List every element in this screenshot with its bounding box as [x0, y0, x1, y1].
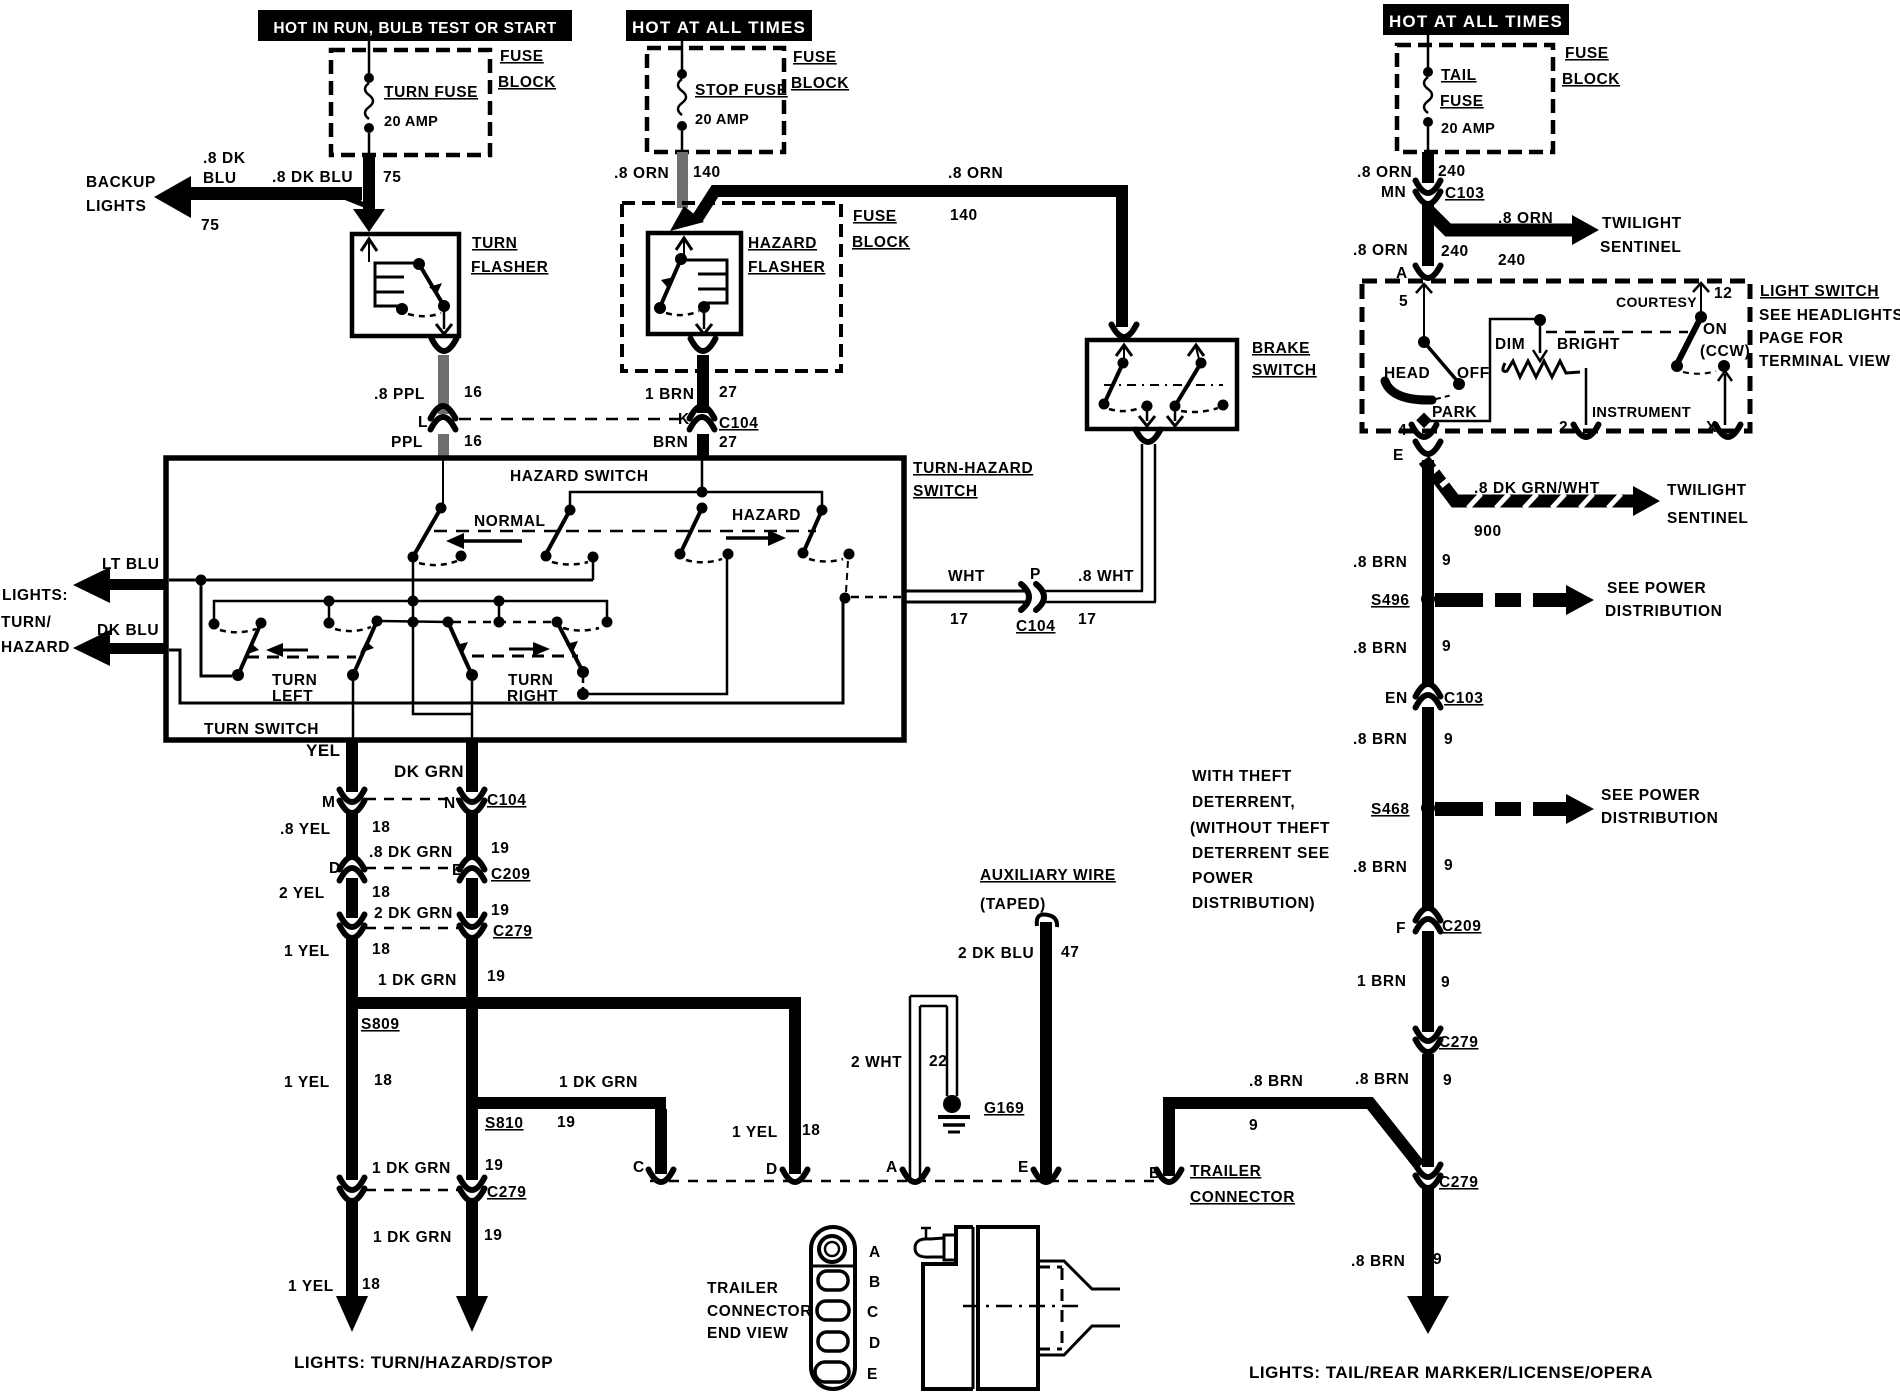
- wire .8 PPL 16: [438, 355, 449, 414]
- auxiliary wire 2 DK BLU 47: [1034, 914, 1059, 1182]
- wire LT BLU internal bus: [169, 560, 593, 586]
- hazard flasher dashed box: [622, 203, 841, 371]
- svg-text:S810: S810: [485, 1115, 524, 1132]
- svg-text:EN: EN: [1385, 690, 1408, 707]
- svg-text:12: 12: [1714, 285, 1732, 302]
- connector D C209: [329, 857, 365, 881]
- svg-text:.8 ORN: .8 ORN: [948, 165, 1003, 182]
- wire .8 ORN 140 (to brake switch): [697, 191, 1122, 327]
- label FUSE BLOCK 3: [852, 208, 910, 251]
- svg-text:9: 9: [1444, 857, 1453, 874]
- svg-text:TWILIGHT: TWILIGHT: [1602, 215, 1682, 232]
- svg-text:LIGHTS: TURN/HAZARD/STOP: LIGHTS: TURN/HAZARD/STOP: [294, 1353, 553, 1372]
- svg-text:TAIL: TAIL: [1441, 67, 1477, 84]
- svg-text:TURN: TURN: [472, 235, 517, 252]
- svg-text:1 BRN: 1 BRN: [1357, 973, 1407, 990]
- label SEE POWER DISTRIBUTION 1: [1605, 580, 1722, 620]
- svg-text:BACKUP: BACKUP: [86, 174, 156, 191]
- light switch courtesy ON CCW contacts: [1616, 283, 1750, 436]
- svg-text:19: 19: [557, 1114, 575, 1131]
- svg-text:.8 DK GRN/WHT: .8 DK GRN/WHT: [1474, 480, 1600, 497]
- arrow normal (left): [446, 533, 522, 549]
- svg-text:TURN FUSE: TURN FUSE: [384, 84, 478, 101]
- svg-text:D: D: [329, 860, 341, 877]
- labels AUXILIARY WIRE (TAPED) 2 DK BLU 47: [958, 867, 1116, 962]
- svg-text:.8 BRN: .8 BRN: [1249, 1073, 1303, 1090]
- labels YEL DK GRN: [306, 741, 464, 781]
- wire .8 DK GRN 19: [466, 812, 478, 858]
- dashed turn-right linkage + arrow: [472, 642, 578, 656]
- svg-text:1 YEL: 1 YEL: [288, 1278, 334, 1295]
- svg-text:240: 240: [1498, 252, 1526, 269]
- banner HOT AT ALL TIMES (middle): [626, 10, 812, 41]
- light switch exit chevrons 4 2 X: [1412, 425, 1741, 438]
- svg-text:BLU: BLU: [203, 170, 237, 187]
- svg-text:.8 YEL: .8 YEL: [280, 821, 331, 838]
- svg-text:LT BLU: LT BLU: [102, 556, 160, 573]
- labels 1 YEL 18 (S809 branch): [732, 1122, 820, 1178]
- svg-text:HAZARD: HAZARD: [732, 507, 801, 524]
- connector P C104 (horizontal): [1021, 584, 1044, 610]
- svg-text:B: B: [869, 1274, 881, 1291]
- svg-text:LIGHTS:: LIGHTS:: [2, 587, 68, 604]
- trailer connector dashed bus: [650, 1180, 1160, 1183]
- wire .8 BRN 9 main vertical (E to S496): [1422, 460, 1434, 685]
- svg-text:D: D: [869, 1335, 881, 1352]
- svg-text:1 DK GRN: 1 DK GRN: [559, 1074, 638, 1091]
- svg-text:.8 BRN: .8 BRN: [1351, 1253, 1405, 1270]
- hazard switch contact 2: [541, 510, 599, 565]
- svg-text:9: 9: [1443, 1072, 1452, 1089]
- svg-text:FLASHER: FLASHER: [471, 259, 548, 276]
- svg-text:TRAILER: TRAILER: [1190, 1163, 1261, 1180]
- labels 1 DK GRN (S810): [559, 1074, 645, 1176]
- svg-text:TURN: TURN: [508, 672, 553, 689]
- svg-text:19: 19: [484, 1227, 502, 1244]
- label TRAILER CONNECTOR END VIEW: [707, 1280, 812, 1342]
- svg-text:C: C: [633, 1159, 645, 1176]
- svg-text:17: 17: [950, 611, 968, 628]
- wire BRN 27: [697, 434, 709, 460]
- svg-text:HAZARD SWITCH: HAZARD SWITCH: [510, 468, 649, 485]
- svg-text:FUSE: FUSE: [1565, 45, 1609, 62]
- wire 1 BRN 27: [697, 355, 709, 413]
- label TURN-HAZARD SWITCH: [913, 460, 1033, 500]
- svg-text:.8 DK GRN: .8 DK GRN: [369, 844, 453, 861]
- svg-text:SEE POWER: SEE POWER: [1607, 580, 1706, 597]
- svg-text:LIGHT SWITCH: LIGHT SWITCH: [1760, 283, 1879, 300]
- wire BRN entry into hazard switch: [697, 460, 708, 498]
- svg-text:FUSE: FUSE: [853, 208, 897, 225]
- svg-text:END VIEW: END VIEW: [707, 1325, 788, 1342]
- svg-text:.8 DK BLU: .8 DK BLU: [272, 169, 353, 186]
- svg-text:SWITCH: SWITCH: [1252, 362, 1317, 379]
- labels .8 DK GRN/WHT 900 TWILIGHT SENTINEL: [1474, 480, 1748, 540]
- svg-text:FUSE: FUSE: [793, 49, 837, 66]
- arrow LT BLU output: [73, 567, 168, 603]
- svg-text:F: F: [1396, 920, 1406, 937]
- turn switch contact left (TURN LEFT): [209, 618, 267, 682]
- turn-right arm: [557, 622, 589, 700]
- arrow to TWILIGHT SENTINEL (orange): [1428, 210, 1599, 245]
- svg-text:N: N: [444, 795, 456, 812]
- connector E C209: [452, 857, 530, 883]
- svg-text:5: 5: [1399, 293, 1408, 310]
- svg-text:D: D: [766, 1161, 778, 1178]
- svg-text:M: M: [322, 794, 336, 811]
- svg-text:900: 900: [1474, 523, 1502, 540]
- svg-text:L: L: [418, 414, 428, 431]
- dashed line C104 L-K: [459, 418, 684, 421]
- label TRAILER CONNECTOR: [1190, 1163, 1295, 1206]
- svg-text:27: 27: [719, 434, 737, 451]
- wire 1 YEL 18 (below S809): [346, 1009, 358, 1180]
- connector N C104: [444, 790, 526, 814]
- hazard switch contact 3: [675, 503, 734, 563]
- labels LT BLU / LIGHTS: TURN/ HAZARD: [102, 556, 160, 573]
- svg-text:C103: C103: [1444, 690, 1483, 707]
- svg-text:9: 9: [1249, 1117, 1258, 1134]
- svg-text:FLASHER: FLASHER: [748, 259, 825, 276]
- svg-text:18: 18: [362, 1276, 380, 1293]
- labels A B C D E (end view pins): [867, 1244, 881, 1383]
- light switch rheostat DIM BRIGHT INSTRUMENT: [1424, 314, 1691, 436]
- label FUSE BLOCK 1: [498, 48, 556, 91]
- svg-text:9: 9: [1433, 1251, 1442, 1268]
- svg-text:18: 18: [374, 1072, 392, 1089]
- wire .8 BRN 9 branch to trailer B: [1157, 1103, 1421, 1182]
- wire 1 DK GRN 19: [466, 938, 478, 1004]
- svg-text:INSTRUMENT: INSTRUMENT: [1592, 405, 1691, 421]
- svg-text:P: P: [1030, 566, 1041, 583]
- label FUSE BLOCK 4: [1562, 45, 1620, 88]
- wire LT BLU bus to turn-left arm: [201, 585, 232, 676]
- turn switch center contact: [377, 606, 478, 738]
- svg-text:CONNECTOR: CONNECTOR: [1190, 1189, 1295, 1206]
- hazard flasher U2: [648, 233, 741, 334]
- svg-text:C279: C279: [1439, 1174, 1478, 1191]
- svg-text:S468: S468: [1371, 801, 1410, 818]
- svg-text:A: A: [869, 1244, 881, 1261]
- fuse block 1 (dashed box): [331, 50, 490, 155]
- label LIGHT SWITCH SEE HEADLIGHTS PAGE FOR TERMINAL VIEW: [1759, 283, 1900, 370]
- svg-text:PPL: PPL: [391, 434, 423, 451]
- svg-text:C279: C279: [1439, 1034, 1478, 1051]
- svg-text:20 AMP: 20 AMP: [695, 112, 749, 128]
- connector chevrons below hazard flasher: [691, 339, 716, 352]
- dashed C209 link: [366, 867, 458, 870]
- svg-text:DISTRIBUTION: DISTRIBUTION: [1601, 810, 1718, 827]
- svg-text:E: E: [1018, 1159, 1029, 1176]
- wire .8 ORN 240 below C103: [1422, 205, 1434, 266]
- label BRAKE SWITCH: [1252, 340, 1317, 379]
- svg-text:.8 BRN: .8 BRN: [1353, 554, 1407, 571]
- svg-text:G169: G169: [984, 1100, 1024, 1117]
- svg-text:LIGHTS: LIGHTS: [86, 198, 146, 215]
- svg-text:.8 BRN: .8 BRN: [1355, 1071, 1409, 1088]
- svg-text:C209: C209: [1442, 918, 1481, 935]
- label SEE POWER DISTRIBUTION 2: [1601, 787, 1718, 827]
- svg-text:18: 18: [802, 1122, 820, 1139]
- svg-text:OFF: OFF: [1457, 365, 1490, 382]
- svg-text:TWILIGHT: TWILIGHT: [1667, 482, 1747, 499]
- svg-text:27: 27: [719, 384, 737, 401]
- svg-text:.8 WHT: .8 WHT: [1078, 568, 1134, 585]
- label TURN FLASHER: [471, 235, 548, 276]
- svg-text:SENTINEL: SENTINEL: [1600, 239, 1681, 256]
- svg-text:WITH THEFT: WITH THEFT: [1192, 768, 1292, 785]
- svg-text:FUSE: FUSE: [1440, 93, 1484, 110]
- splice S468 with arrow SEE POWER DISTRIBUTION: [1371, 794, 1594, 824]
- svg-text:1 DK GRN: 1 DK GRN: [378, 972, 457, 989]
- svg-text:DETERRENT,: DETERRENT,: [1192, 794, 1295, 811]
- svg-text:16: 16: [464, 433, 482, 450]
- light switch dashed box: [1362, 281, 1750, 431]
- svg-text:18: 18: [372, 941, 390, 958]
- wire DK GRN below switch: [466, 738, 478, 792]
- svg-text:1 DK GRN: 1 DK GRN: [373, 1229, 452, 1246]
- svg-text:SEE HEADLIGHTS: SEE HEADLIGHTS: [1759, 307, 1900, 324]
- svg-text:DISTRIBUTION): DISTRIBUTION): [1192, 895, 1315, 912]
- svg-text:18: 18: [372, 884, 390, 901]
- connector C279 (dk grn lower): [460, 1178, 527, 1202]
- svg-text:E: E: [452, 862, 463, 879]
- connector chevrons below turn flasher: [432, 339, 457, 352]
- svg-text:S496: S496: [1371, 592, 1410, 609]
- labels WHT P .8 WHT 17 C104 17: [948, 566, 1134, 635]
- connector C279 (dk grn): [460, 915, 533, 941]
- connector L C104: [418, 406, 456, 431]
- svg-text:240: 240: [1441, 243, 1469, 260]
- hazard switch contact 4: [798, 510, 855, 562]
- svg-text:TURN SWITCH: TURN SWITCH: [204, 721, 319, 738]
- banner HOT AT ALL TIMES (right): [1383, 4, 1569, 35]
- wire .8 WHT (hollow) brake switch to C104 P: [1044, 430, 1161, 603]
- svg-text:TRAILER: TRAILER: [707, 1280, 778, 1297]
- svg-text:COURTESY: COURTESY: [1616, 294, 1697, 310]
- svg-text:4: 4: [1398, 422, 1407, 439]
- svg-text:PARK: PARK: [1432, 404, 1477, 421]
- wire .8 ORN 240: [1422, 152, 1434, 183]
- svg-text:HOT AT ALL TIMES: HOT AT ALL TIMES: [1389, 12, 1563, 31]
- svg-text:PAGE FOR: PAGE FOR: [1759, 330, 1844, 347]
- svg-text:TURN/: TURN/: [1, 614, 51, 631]
- connector E below light switch: [1393, 442, 1441, 465]
- trailer connector side view: [915, 1227, 1120, 1389]
- wire DK BLU internal bus: [169, 602, 843, 703]
- connector MN C103: [1381, 181, 1484, 205]
- svg-text:BLOCK: BLOCK: [498, 74, 556, 91]
- svg-text:DIM: DIM: [1495, 336, 1525, 353]
- svg-text:19: 19: [485, 1157, 503, 1174]
- dashed linkage line NORMAL/HAZARD: [434, 530, 816, 533]
- svg-text:75: 75: [383, 169, 401, 186]
- labels .8 ORN 140: [614, 164, 721, 182]
- label FUSE BLOCK 2: [791, 49, 849, 92]
- wire hazard contact 4 to WHT node (dash-dot): [846, 561, 848, 592]
- svg-text:C279: C279: [493, 923, 532, 940]
- svg-text:.8 BRN: .8 BRN: [1353, 859, 1407, 876]
- light switch pin 5 and head/off/park contacts: [1384, 284, 1490, 439]
- svg-text:140: 140: [950, 207, 978, 224]
- svg-text:E: E: [867, 1366, 878, 1383]
- svg-text:C209: C209: [491, 866, 530, 883]
- connector K C104: [678, 406, 758, 432]
- labels .8 ORN 240 240 TWILIGHT SENTINEL: [1353, 210, 1682, 269]
- svg-text:17: 17: [1078, 611, 1096, 628]
- label BACKUP LIGHTS: [86, 174, 156, 215]
- svg-text:.8 ORN: .8 ORN: [1498, 210, 1553, 227]
- svg-text:TURN: TURN: [272, 672, 317, 689]
- svg-text:.8 BRN: .8 BRN: [1353, 731, 1407, 748]
- svg-text:9: 9: [1442, 638, 1451, 655]
- wire .8 BRN 9 to tail lights arrow: [1407, 1189, 1449, 1334]
- svg-text:9: 9: [1444, 731, 1453, 748]
- svg-text:20 AMP: 20 AMP: [1441, 121, 1495, 137]
- svg-text:SENTINEL: SENTINEL: [1667, 510, 1748, 527]
- svg-text:BLOCK: BLOCK: [791, 75, 849, 92]
- connector M C104: [322, 790, 365, 814]
- fuse STOP FUSE 20 AMP: [677, 41, 788, 152]
- wire .8 BRN 9 (C103 to S468): [1422, 707, 1434, 802]
- wire .8 BRN 9 (C279 to C279): [1422, 1054, 1434, 1167]
- svg-text:(TAPED): (TAPED): [980, 896, 1046, 913]
- wire 2 WHT 22 hollow to ground: [903, 996, 958, 1182]
- svg-text:9: 9: [1441, 974, 1450, 991]
- wire PPL 16: [438, 434, 449, 460]
- svg-text:1 YEL: 1 YEL: [284, 943, 330, 960]
- svg-text:ON: ON: [1703, 321, 1727, 338]
- fuse block 2 (dashed box): [647, 48, 784, 152]
- svg-text:16: 16: [464, 384, 482, 401]
- node to WHT output: [840, 593, 905, 604]
- wire .8 YEL 18: [346, 812, 358, 858]
- fuse TURN FUSE 20 AMP: [364, 41, 478, 155]
- brake switch: [1087, 325, 1237, 430]
- svg-text:1 BRN: 1 BRN: [645, 386, 695, 403]
- svg-text:2 DK GRN: 2 DK GRN: [374, 905, 453, 922]
- svg-text:HAZARD: HAZARD: [748, 235, 817, 252]
- wire 2 YEL 18: [346, 878, 358, 918]
- arrow hazard (right): [726, 530, 786, 546]
- labels .8 ORN 140 right: [948, 165, 1003, 224]
- label TURN LEFT: [272, 672, 317, 705]
- svg-text:MN: MN: [1381, 184, 1406, 201]
- svg-text:.8 ORN: .8 ORN: [614, 165, 669, 182]
- svg-text:2 YEL: 2 YEL: [279, 885, 325, 902]
- turn-hazard switch box: [166, 458, 904, 740]
- turn flasher U1: [352, 234, 459, 336]
- dashed C104 link: [366, 798, 458, 801]
- svg-text:BLOCK: BLOCK: [1562, 71, 1620, 88]
- svg-text:2 WHT: 2 WHT: [851, 1054, 902, 1071]
- wire .8 BRN 9 (S468 to C209): [1422, 802, 1434, 909]
- svg-text:75: 75: [201, 217, 219, 234]
- svg-text:1 YEL: 1 YEL: [732, 1124, 778, 1141]
- ground G169: [938, 1095, 1024, 1132]
- svg-text:18: 18: [372, 819, 390, 836]
- splice S496 with arrow SEE POWER DISTRIBUTION: [1371, 585, 1594, 615]
- svg-text:22: 22: [929, 1053, 947, 1070]
- svg-text:WHT: WHT: [948, 568, 985, 585]
- connector EN C103: [1385, 684, 1483, 708]
- svg-text:SWITCH: SWITCH: [913, 483, 978, 500]
- svg-text:SEE POWER: SEE POWER: [1601, 787, 1700, 804]
- splice S810 bus to trailer C: [466, 1097, 674, 1182]
- banner HOT IN RUN, BULB TEST OR START: [258, 10, 572, 41]
- svg-text:A: A: [886, 1159, 898, 1176]
- dashed turn-left linkage + arrow: [247, 643, 356, 657]
- svg-text:C104: C104: [487, 792, 526, 809]
- svg-text:19: 19: [487, 968, 505, 985]
- svg-text:20 AMP: 20 AMP: [384, 114, 438, 130]
- svg-text:DK GRN: DK GRN: [394, 762, 464, 781]
- wire 1 DK GRN (below S809): [466, 1009, 478, 1097]
- svg-text:YEL: YEL: [306, 741, 341, 760]
- svg-text:CONNECTOR: CONNECTOR: [707, 1303, 812, 1320]
- svg-text:HAZARD: HAZARD: [1, 639, 70, 656]
- svg-text:BLOCK: BLOCK: [852, 234, 910, 251]
- wire .8 DK GRN/WHT striped arrow to TWILIGHT SENTINEL: [1424, 460, 1660, 516]
- hazard switch contact 1 (normal): [408, 508, 467, 565]
- wire 1 YEL 18 to lights arrow: [336, 1201, 368, 1332]
- wire labels .8 DK BLU 75: [201, 150, 401, 234]
- svg-text:C104: C104: [1016, 618, 1055, 635]
- svg-text:STOP FUSE: STOP FUSE: [695, 82, 788, 99]
- svg-text:BRAKE: BRAKE: [1252, 340, 1310, 357]
- wire turn-right to hazard contact 3: [589, 559, 727, 694]
- wire 2 DK GRN 19: [466, 878, 478, 918]
- wire contact1 to bus: [412, 560, 415, 599]
- svg-text:S809: S809: [361, 1016, 400, 1033]
- turn switch contact 2: [324, 606, 383, 738]
- dashed C279 link: [366, 927, 458, 930]
- connector F C209: [1396, 908, 1481, 937]
- arrow DK BLU output: [73, 630, 168, 666]
- wire WHT 17 (hollow) switch to C104 P: [906, 591, 1026, 602]
- svg-text:BRIGHT: BRIGHT: [1557, 336, 1620, 353]
- svg-text:9: 9: [1442, 552, 1451, 569]
- svg-text:C103: C103: [1445, 185, 1484, 202]
- connector C279 (yel lower): [340, 1178, 365, 1202]
- wire 1 DK GRN 19 (below S810): [466, 1109, 478, 1180]
- svg-text:.8 ORN: .8 ORN: [1357, 164, 1412, 181]
- svg-text:1 YEL: 1 YEL: [284, 1074, 330, 1091]
- dashed C279 lower link: [366, 1189, 458, 1192]
- svg-text:LIGHTS: TAIL/REAR MARKER/LICEN: LIGHTS: TAIL/REAR MARKER/LICENSE/OPERA: [1249, 1363, 1653, 1382]
- svg-text:B: B: [1149, 1165, 1161, 1182]
- connector A light switch: [1396, 265, 1441, 282]
- svg-text:C279: C279: [487, 1184, 526, 1201]
- labels 1 BRN 27 / BRN 27: [645, 384, 737, 451]
- svg-text:BRN: BRN: [653, 434, 688, 451]
- svg-text:240: 240: [1438, 163, 1466, 180]
- wire YEL below switch: [346, 738, 358, 792]
- wire PPL entry into hazard switch: [436, 460, 447, 514]
- labels .8 BRN 9 / EN C103: [1353, 638, 1451, 657]
- svg-text:140: 140: [693, 164, 721, 181]
- dashed bus to turn-right contact: [453, 606, 613, 631]
- labels .8 BRN 9 branch: [1249, 1073, 1303, 1134]
- label WITH THEFT DETERRENT block: [1190, 768, 1330, 912]
- svg-text:2 DK BLU: 2 DK BLU: [958, 945, 1034, 962]
- label HAZARD FLASHER: [748, 235, 825, 276]
- svg-text:POWER: POWER: [1192, 870, 1254, 887]
- svg-text:C: C: [867, 1304, 879, 1321]
- arrow to BACKUP LIGHTS: [154, 176, 385, 232]
- svg-text:HOT IN RUN, BULB TEST OR START: HOT IN RUN, BULB TEST OR START: [273, 20, 556, 37]
- svg-text:.8 PPL: .8 PPL: [374, 386, 425, 403]
